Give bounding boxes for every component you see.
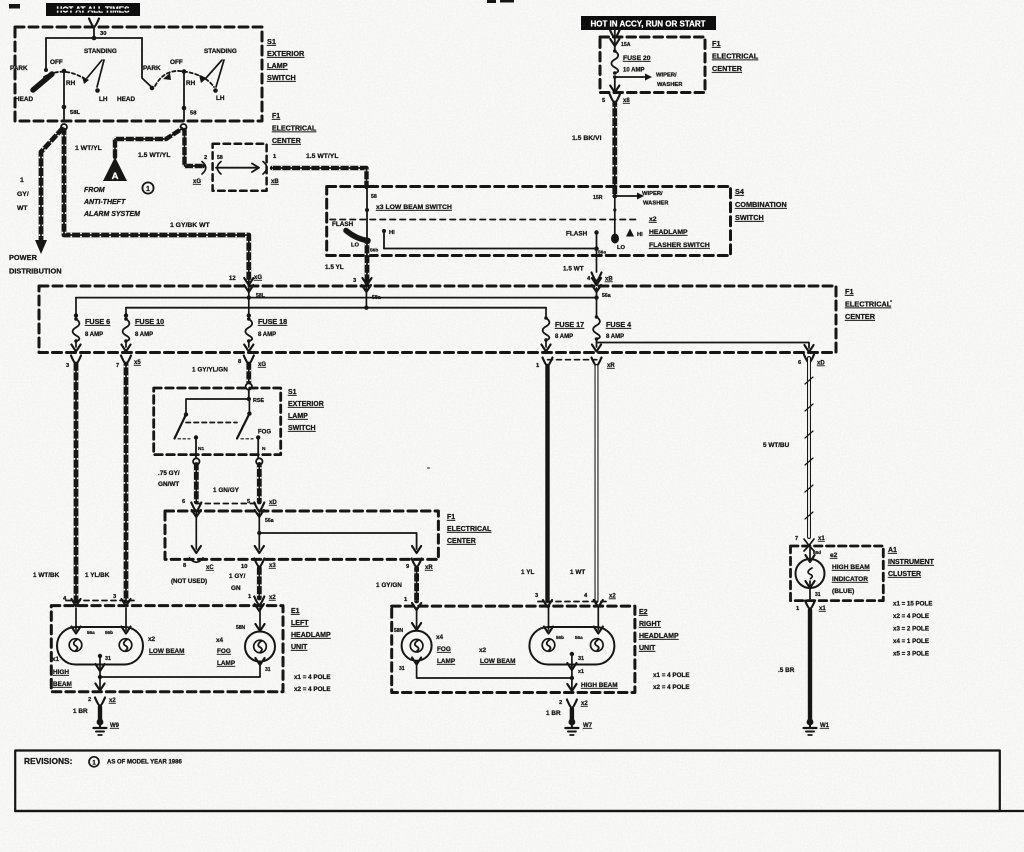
terminal 58L at box edge <box>61 124 67 130</box>
svg-text:x2 = 4 POLE: x2 = 4 POLE <box>294 686 331 693</box>
svg-text:x2: x2 <box>609 594 616 600</box>
E1 pole legend <box>294 674 331 693</box>
svg-text:EXTERIOR: EXTERIOR <box>288 401 324 408</box>
svg-text:HEADLAMP: HEADLAMP <box>649 229 688 236</box>
svg-text:UNIT: UNIT <box>291 644 308 651</box>
svg-text:F1: F1 <box>447 514 455 521</box>
svg-text:xR: xR <box>425 565 433 571</box>
svg-text:1 WT: 1 WT <box>570 569 585 576</box>
label F1 ELECTRICAL CENTER (right of wide box) <box>845 287 892 321</box>
power feed label HOT AT ALL TIMES <box>46 3 140 16</box>
svg-text:1.5 WT: 1.5 WT <box>563 266 584 273</box>
svg-text:e2: e2 <box>830 552 838 559</box>
svg-text:31: 31 <box>399 666 405 672</box>
svg-text:56b: 56b <box>556 635 564 640</box>
svg-text:RIGHT: RIGHT <box>639 621 662 628</box>
label S4 COMBINATION SWITCH <box>735 187 787 222</box>
svg-text:CENTER: CENTER <box>845 312 876 321</box>
wire .75 GY/GN/WT <box>158 465 201 512</box>
svg-text:58: 58 <box>371 194 377 200</box>
svg-text:1: 1 <box>146 186 150 193</box>
svg-text:CENTER: CENTER <box>712 64 743 73</box>
exit arrow and connector x8 <box>602 77 630 104</box>
fog feed path through middle electrical center <box>255 513 422 553</box>
svg-text:x2 = 4 POLE: x2 = 4 POLE <box>893 613 929 620</box>
wire .5 WT/BU from fuse 4 branch to instrument cluster <box>763 358 813 537</box>
right headlamp unit E2 box <box>392 606 635 692</box>
svg-text:CLUSTER: CLUSTER <box>888 571 921 578</box>
svg-text:S1: S1 <box>267 37 276 46</box>
svg-text:HIGH: HIGH <box>53 669 69 676</box>
svg-text:58: 58 <box>190 111 197 117</box>
svg-text:FUSE 17: FUSE 17 <box>555 320 584 329</box>
svg-text:N: N <box>262 446 266 452</box>
E2 high beam filament <box>575 635 603 651</box>
E1 low beam filament <box>105 630 132 651</box>
svg-text:58L: 58L <box>70 110 80 116</box>
wire 1 GY/GN to right fog lamp <box>376 559 433 611</box>
svg-text:15A: 15A <box>621 42 631 48</box>
label F1 ELECTRICAL CENTER (top right) <box>712 39 759 73</box>
label F1 ELECTRICAL CENTER (top left center) <box>272 113 317 145</box>
E2 fog lamp link wire <box>417 662 572 678</box>
svg-text:LAMP: LAMP <box>217 660 236 667</box>
svg-text:1.5 WT/YL: 1.5 WT/YL <box>138 152 170 159</box>
svg-text:LO: LO <box>351 243 360 249</box>
svg-text:WASHER: WASHER <box>643 201 669 207</box>
connector pin 1 below cluster <box>796 601 826 613</box>
svg-text:1 GY/: 1 GY/ <box>229 573 246 580</box>
connector pin 3 below fuse 6 <box>66 356 81 370</box>
svg-text:1 WT/YL: 1 WT/YL <box>75 145 102 152</box>
E1 label x2 LOW BEAM <box>148 636 185 655</box>
combination switch S4 box <box>327 187 731 256</box>
wire from entry 58a to bus 2 <box>365 288 367 308</box>
E1 high beam filament <box>69 630 95 651</box>
svg-text:1 GY/BK WT: 1 GY/BK WT <box>170 222 210 229</box>
FOG switch lever <box>237 401 271 459</box>
revisions box <box>15 751 1024 812</box>
svg-text:7: 7 <box>795 536 798 542</box>
wiper/washer tap arrow <box>613 73 683 89</box>
svg-text:ELECTRICAL: ELECTRICAL <box>272 126 317 133</box>
svg-text:PARK: PARK <box>10 65 28 72</box>
wire 1.5 BK/VI down to combination switch <box>572 103 615 196</box>
svg-text:xR: xR <box>607 363 615 369</box>
wire from entry 58L to fuse 18 <box>248 288 250 319</box>
fuse 18 8 AMP <box>244 313 287 351</box>
wire 1 GY/YL/GN from fuse 18 to lower lamp switch <box>192 364 249 383</box>
E1 fog lamp <box>236 608 275 673</box>
svg-text:.5 BR: .5 BR <box>778 667 795 674</box>
svg-text:2: 2 <box>204 155 207 161</box>
svg-text:x5: x5 <box>134 360 141 366</box>
svg-text:AS OF MODEL YEAR 1986: AS OF MODEL YEAR 1986 <box>107 760 182 766</box>
connector pin 1 below fuse 17 <box>536 358 553 370</box>
svg-text:8 AMP: 8 AMP <box>85 332 103 338</box>
svg-text:FUSE 20: FUSE 20 <box>623 55 651 62</box>
svg-text:S4: S4 <box>735 187 745 196</box>
svg-text:HEAD: HEAD <box>15 96 33 103</box>
connector pin 7 x5 below fuse 10 <box>116 356 141 370</box>
svg-text:31: 31 <box>578 656 584 662</box>
svg-text:1 GY/YL/GN: 1 GY/YL/GN <box>192 367 228 374</box>
svg-text:2: 2 <box>88 697 91 703</box>
svg-text:INSTRUMENT: INSTRUMENT <box>888 559 935 566</box>
svg-text:56a: 56a <box>602 293 611 299</box>
svg-text:LOW BEAM: LOW BEAM <box>149 648 185 655</box>
svg-text:FROM: FROM <box>84 187 105 194</box>
terminal 58 at box edge <box>181 124 187 130</box>
svg-text:1 WT/BK: 1 WT/BK <box>33 572 60 579</box>
label E2 RIGHT HEADLAMP UNIT <box>639 609 679 652</box>
wire 1.5 WT/YL from connector to combination switch <box>272 153 367 187</box>
fuse 4 8 AMP <box>592 315 631 351</box>
branch from fuse 4 to instrument cluster feed <box>597 343 814 353</box>
svg-text:1.5 BK/VI: 1.5 BK/VI <box>572 135 602 142</box>
label E1 LEFT HEADLAMP UNIT <box>291 608 331 651</box>
svg-text:xG: xG <box>258 362 266 368</box>
svg-text:SWITCH: SWITCH <box>288 425 316 432</box>
svg-text:FLASH: FLASH <box>566 231 588 238</box>
svg-text:RH: RH <box>186 80 196 87</box>
entry 58a <box>362 285 381 301</box>
svg-text:56a: 56a <box>265 518 274 524</box>
E2 fog lamp <box>394 608 432 672</box>
terminal circles at bottom of lower lamp switch <box>193 458 199 464</box>
entry 56a <box>592 285 611 299</box>
junction 56a <box>594 246 599 251</box>
connector xR below fuse 4 <box>592 358 616 370</box>
svg-text:x2: x2 <box>649 216 657 223</box>
wire 1 WT from fuse 4 to right headlamp <box>570 366 616 607</box>
label S1 EXTERIOR LAMP SWITCH (lower) <box>288 389 324 432</box>
label FROM ANTI-THEFT ALARM SYSTEM <box>83 187 140 218</box>
connector strip above middle electrical center <box>196 503 259 505</box>
flasher FLASH contact <box>566 230 599 248</box>
E1 label x4 FOG LAMP <box>216 637 236 667</box>
label F1 ELECTRICAL CENTER (middle) <box>447 514 492 545</box>
svg-text:DISTRIBUTION: DISTRIBUTION <box>9 267 62 276</box>
svg-text:xD: xD <box>269 500 277 506</box>
svg-text:LOW BEAM: LOW BEAM <box>480 658 516 665</box>
svg-text:WIPER/: WIPER/ <box>642 191 663 197</box>
svg-text:HOT IN ACCY, RUN OR START: HOT IN ACCY, RUN OR START <box>590 19 705 28</box>
wire 1 GY/BK WT from 58L to electrical center <box>64 130 262 285</box>
svg-text:8 AMP: 8 AMP <box>135 332 153 338</box>
svg-text:xG: xG <box>193 179 201 185</box>
svg-text:56b: 56b <box>370 248 378 254</box>
svg-text:E1: E1 <box>291 608 300 615</box>
svg-text:56b: 56b <box>105 630 113 635</box>
svg-text:31: 31 <box>105 656 111 662</box>
wire to HEAD contact of right rotor <box>142 38 152 88</box>
svg-text:FUSE 18: FUSE 18 <box>258 317 287 326</box>
fuse 10 8 AMP <box>121 308 164 352</box>
fuse 6 8 AMP <box>71 298 110 352</box>
svg-text:ALARM SYSTEM: ALARM SYSTEM <box>83 211 140 218</box>
svg-text:E2: E2 <box>639 609 648 616</box>
rotary switch 1 (left half of S1) <box>10 48 117 121</box>
svg-text:FUSE 4: FUSE 4 <box>606 320 631 329</box>
instrument cluster A1 box <box>791 546 884 601</box>
svg-text:GN: GN <box>231 585 241 592</box>
svg-text:COMBINATION: COMBINATION <box>735 200 787 209</box>
svg-text:POWER: POWER <box>9 253 38 262</box>
svg-text:SWITCH: SWITCH <box>267 73 296 82</box>
svg-text:1 BR: 1 BR <box>73 708 88 715</box>
svg-text:W9: W9 <box>110 723 120 729</box>
svg-text:GN/WT: GN/WT <box>158 481 179 488</box>
svg-text:56a: 56a <box>575 635 583 640</box>
svg-text:CENTER: CENTER <box>272 138 301 145</box>
svg-text:x2: x2 <box>479 647 487 654</box>
svg-text:UNIT: UNIT <box>639 645 656 652</box>
E1 feed drops into bulb <box>71 608 130 634</box>
E2 common 31 wire <box>567 652 584 692</box>
connector strip above E2 <box>538 601 608 603</box>
E2 ground wire 1 BR <box>546 700 588 720</box>
exterior lamp switch S1 box (lower) <box>154 388 281 455</box>
svg-text:F1: F1 <box>712 39 721 48</box>
svg-text:W1: W1 <box>820 723 830 729</box>
bus line 1 <box>76 295 599 299</box>
triangle A from anti-theft alarm <box>103 157 127 182</box>
svg-text:HI: HI <box>637 232 643 238</box>
svg-text:8 AMP: 8 AMP <box>606 334 624 340</box>
svg-text:x1 = 15 POLE: x1 = 15 POLE <box>893 601 932 608</box>
wire 1 WT/YL from alarm triangle to terminal 58 <box>75 129 182 157</box>
svg-text:x3 = 2 POLE: x3 = 2 POLE <box>893 626 929 633</box>
RSE node and feed <box>186 390 264 414</box>
svg-text:x5 = 3 POLE: x5 = 3 POLE <box>893 651 929 658</box>
low beam switch feed wire 58 <box>365 187 377 239</box>
svg-text:x4: x4 <box>436 634 444 641</box>
E2 feed drops into bulb <box>544 608 603 634</box>
E1 fog lamp link wire <box>100 662 260 677</box>
svg-text:56a: 56a <box>87 630 95 635</box>
svg-text:OFF: OFF <box>170 59 183 66</box>
wire from HI contact to flasher junction 56a <box>384 248 597 250</box>
svg-text:LAMP: LAMP <box>267 61 288 70</box>
svg-text:LO: LO <box>617 245 626 251</box>
E1 common 31 wire <box>95 654 111 691</box>
svg-text:LAMP: LAMP <box>437 658 456 665</box>
svg-text:8 AMP: 8 AMP <box>258 332 276 338</box>
svg-text:12: 12 <box>229 276 236 282</box>
flasher lever <box>598 234 626 256</box>
svg-text:8 AMP: 8 AMP <box>555 334 573 340</box>
svg-text:HI: HI <box>389 230 395 236</box>
connector below HOT IN ACCY banner <box>610 30 620 39</box>
svg-text:xG: xG <box>254 275 262 281</box>
low beam switch lever <box>332 221 378 254</box>
svg-text:ELECTRICAL: ELECTRICAL <box>712 52 759 61</box>
E1 headlamp bulb oval <box>57 627 143 665</box>
ground W7 <box>565 719 592 735</box>
svg-text:W7: W7 <box>583 723 593 729</box>
label e2 HIGH BEAM INDICATOR (BLUE) <box>830 552 870 595</box>
svg-text:xB: xB <box>605 277 613 283</box>
entry arrows into middle electrical center <box>192 510 274 524</box>
svg-text:2: 2 <box>559 700 562 706</box>
svg-text:1 BR: 1 BR <box>546 710 561 717</box>
svg-text:F1: F1 <box>272 113 280 120</box>
svg-text:REVISIONS:: REVISIONS: <box>24 756 72 766</box>
flasher HI contact <box>626 229 643 239</box>
svg-text:SWITCH: SWITCH <box>735 213 764 222</box>
svg-text:xD: xD <box>817 361 825 367</box>
connector strip above E1 <box>66 600 136 602</box>
svg-text:x1: x1 <box>52 656 60 663</box>
svg-text:STANDING: STANDING <box>204 48 237 55</box>
svg-text:(NOT USED): (NOT USED) <box>171 578 207 585</box>
svg-text:LH: LH <box>99 96 108 103</box>
svg-text:FLASH: FLASH <box>332 221 354 228</box>
svg-text:STANDING: STANDING <box>84 48 117 55</box>
svg-text:WASHER: WASHER <box>657 82 683 88</box>
svg-text:x4: x4 <box>216 637 224 644</box>
terminal at top of lower lamp switch <box>246 383 252 389</box>
connector x6 in electrical center <box>193 144 279 191</box>
connector strip below fuses 17 and 4 <box>548 359 597 361</box>
connector pin 7 x1 into cluster <box>795 536 825 555</box>
svg-text:58: 58 <box>217 155 223 161</box>
svg-text:1: 1 <box>92 760 96 767</box>
svg-text:x1 = 4 POLE: x1 = 4 POLE <box>294 674 331 681</box>
svg-text:x4 = 1 POLE: x4 = 1 POLE <box>893 638 929 645</box>
svg-text:EXTERIOR: EXTERIOR <box>267 49 305 58</box>
wire 1 GN/GY <box>213 465 277 512</box>
power feed label HOT IN ACCY RUN OR START <box>581 16 716 30</box>
svg-text:58N: 58N <box>394 628 404 634</box>
svg-text:LAMP: LAMP <box>288 413 308 420</box>
wire 1 YL from fuse 17 to right headlamp <box>521 366 552 607</box>
svg-text:HIGH BEAM: HIGH BEAM <box>832 564 870 571</box>
fuse 20 10 AMP <box>611 49 650 75</box>
svg-text:ELECTRICAL: ELECTRICAL <box>447 526 492 533</box>
E2 headlamp bulb oval <box>529 627 614 665</box>
electrical center F1 wide box <box>39 286 836 353</box>
ground W1 <box>804 719 830 735</box>
svg-text:.75 GY/: .75 GY/ <box>158 470 180 477</box>
svg-text:x2: x2 <box>148 636 156 643</box>
svg-text:F1: F1 <box>845 287 854 296</box>
svg-text:GY/: GY/ <box>17 191 29 198</box>
wire from entry 56a to fuse 4 <box>596 288 598 317</box>
svg-text:56a: 56a <box>598 250 606 256</box>
wire 1.5 YL from low beam switch to electrical center <box>325 241 372 285</box>
wiper/washer tap of combination switch <box>593 191 669 207</box>
svg-text:FUSE 10: FUSE 10 <box>135 317 164 326</box>
E2 low beam filament <box>542 635 564 651</box>
svg-text:15R: 15R <box>593 195 603 201</box>
svg-text:30: 30 <box>100 31 106 37</box>
E1 labels x1 HIGH BEAM <box>52 656 72 688</box>
wire 1 WT/BK from fuse 6 to left headlamp <box>33 364 81 606</box>
RSE switch lever <box>175 412 205 458</box>
svg-text:x3 LOW BEAM SWITCH: x3 LOW BEAM SWITCH <box>376 204 452 211</box>
wire 1 GY/GN to left fog lamp <box>229 559 276 612</box>
circled numeral 1 <box>142 182 153 193</box>
svg-text:1 GN/GY: 1 GN/GY <box>213 487 240 494</box>
svg-text:10: 10 <box>241 564 247 570</box>
exterior lamp switch S1 box (top) <box>15 27 262 121</box>
rotary switch 2 (right half of S1) <box>117 48 237 121</box>
svg-text:WT: WT <box>17 205 28 212</box>
wire 1.5 WT from flasher to electrical center <box>563 249 613 285</box>
connector pin 8 xG below fuse 18 <box>238 356 266 369</box>
scan specks <box>9 0 892 469</box>
E2 label x4 FOG LAMP <box>436 634 456 665</box>
low beam switch HI contact <box>382 229 395 249</box>
svg-text:FOG: FOG <box>217 648 231 655</box>
label A1 INSTRUMENT CLUSTER <box>888 547 935 578</box>
svg-text:31: 31 <box>265 667 271 673</box>
wire to PARK contact of left rotor <box>45 38 47 69</box>
divider of low beam switch section <box>330 219 640 221</box>
svg-text:5 WT/BU: 5 WT/BU <box>763 442 790 449</box>
svg-text:CENTER: CENTER <box>447 538 476 545</box>
svg-text:A1: A1 <box>888 547 897 554</box>
svg-text:1: 1 <box>20 177 24 184</box>
E2 pole legend <box>653 672 690 691</box>
label S1 EXTERIOR LAMP SWITCH <box>267 37 305 82</box>
svg-text:x2: x2 <box>109 698 116 704</box>
connector pin 6 xD below branch <box>798 355 825 367</box>
svg-text:1 YL/BK: 1 YL/BK <box>85 572 110 579</box>
connector below HOT AT ALL TIMES <box>89 19 99 39</box>
svg-text:FOG: FOG <box>437 646 451 653</box>
wire 1 YL/BK from fuse 10 to left headlamp <box>85 364 131 606</box>
svg-text:ANTI-THEFT: ANTI-THEFT <box>83 199 126 206</box>
svg-text:BEAM: BEAM <box>53 681 72 688</box>
entry 58L <box>244 285 266 299</box>
svg-text:LH: LH <box>216 95 225 102</box>
bus line 2 <box>126 306 546 310</box>
svg-text:WIPER/: WIPER/ <box>656 73 677 79</box>
svg-text:1.5 WT/YL: 1.5 WT/YL <box>306 153 338 160</box>
svg-text:x1: x1 <box>818 536 825 542</box>
svg-text:S1: S1 <box>288 389 297 396</box>
svg-text:INDICATOR: INDICATOR <box>832 576 868 583</box>
svg-text:x2: x2 <box>269 595 276 601</box>
svg-text:FOG: FOG <box>258 430 271 436</box>
svg-text:x3: x3 <box>269 563 276 569</box>
svg-text:x2: x2 <box>581 701 588 707</box>
svg-text:10 AMP: 10 AMP <box>623 68 644 74</box>
svg-text:ELECTRICAL: ELECTRICAL <box>845 300 892 309</box>
svg-text:xC: xC <box>206 565 214 571</box>
wire .5 BR to ground <box>778 610 810 719</box>
pole legend for cluster <box>893 601 932 658</box>
svg-text:(BLUE): (BLUE) <box>832 588 854 595</box>
electrical center F1 box with fuse 20 <box>600 37 705 93</box>
svg-text:FLASHER SWITCH: FLASHER SWITCH <box>649 242 710 249</box>
svg-text:7: 7 <box>116 363 119 369</box>
svg-text:N1: N1 <box>198 446 204 452</box>
svg-text:HEAD: HEAD <box>117 96 135 103</box>
high beam indicator lamp <box>796 548 825 599</box>
svg-text:x8: x8 <box>623 98 630 104</box>
not used path <box>171 513 214 585</box>
svg-text:x1: x1 <box>578 669 584 675</box>
electrical center F1 box (middle) <box>165 511 438 559</box>
svg-text:OFF: OFF <box>50 59 63 66</box>
E2 label x2 LOW BEAM <box>479 647 516 665</box>
fuse 17 8 AMP <box>541 308 584 352</box>
svg-text:xB: xB <box>271 179 279 185</box>
